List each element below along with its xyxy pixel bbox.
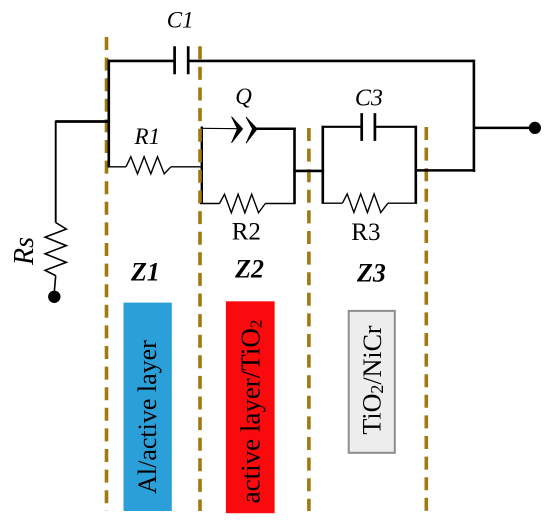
wire Z2 right vertical bbox=[293, 128, 296, 204]
layer box Z2 red bbox=[226, 301, 275, 513]
layer box Z3 gray bbox=[349, 311, 395, 453]
svg-text:Z3: Z3 bbox=[356, 258, 386, 287]
svg-text:TiO2/NiCr: TiO2/NiCr bbox=[357, 325, 387, 435]
wire R3 right bbox=[388, 202, 417, 204]
capacitor C1 bbox=[175, 46, 189, 74]
wire R1 left bbox=[108, 166, 127, 168]
dashed zone separator line 3 bbox=[307, 128, 311, 511]
svg-text:C1: C1 bbox=[167, 8, 194, 33]
svg-text:active layer/TiO2: active layer/TiO2 bbox=[235, 320, 265, 504]
wire Z3 right vertical bbox=[414, 126, 417, 203]
wire R1 right bbox=[171, 166, 201, 168]
resistor R1 bbox=[126, 157, 171, 174]
wire output horizontal bbox=[474, 127, 529, 130]
terminal input dot bbox=[48, 291, 60, 303]
wire R2 right bbox=[265, 203, 295, 205]
svg-text:C3: C3 bbox=[355, 86, 383, 112]
wire Q lead thin bbox=[201, 127, 238, 129]
wire node Z3-output bbox=[415, 169, 476, 172]
wire Q right bbox=[257, 128, 296, 131]
wire input horizontal bbox=[56, 120, 110, 123]
CPE Q chevron 1 bbox=[232, 117, 243, 143]
svg-text:Z2: Z2 bbox=[234, 255, 264, 284]
svg-text:R1: R1 bbox=[134, 124, 161, 149]
wire Rs top bbox=[55, 121, 57, 223]
capacitor C3 bbox=[362, 113, 375, 141]
resistor R3 bbox=[342, 194, 388, 213]
wire left node vertical bbox=[108, 60, 111, 167]
wire Z2 left junction vertical bbox=[201, 127, 203, 204]
wire Z3 top right bbox=[375, 126, 417, 128]
resistor Rs bbox=[45, 223, 66, 276]
dashed zone separator line 1 bbox=[105, 37, 109, 511]
svg-text:Z1: Z1 bbox=[130, 257, 160, 286]
layer box Z1 blue bbox=[124, 303, 172, 511]
svg-text:Al/active layer: Al/active layer bbox=[133, 340, 162, 494]
resistor R2 bbox=[220, 194, 266, 213]
dashed zone separator line 2 bbox=[198, 46, 202, 511]
terminal output dot bbox=[529, 122, 541, 134]
wire Z3 left vertical bbox=[321, 126, 324, 203]
svg-text:R3: R3 bbox=[351, 219, 380, 246]
wire right vertical bbox=[473, 60, 476, 172]
wire Z3 top left bbox=[322, 126, 362, 128]
wire top C1 branch bbox=[108, 60, 474, 63]
CPE Q chevron 2 bbox=[246, 117, 257, 143]
wire Rs bottom bbox=[54, 276, 55, 292]
wire node Z2-Z3 bbox=[293, 170, 324, 173]
svg-text:R2: R2 bbox=[232, 219, 261, 246]
svg-text:Q: Q bbox=[235, 84, 252, 109]
dashed zone separator line 4 bbox=[424, 127, 428, 511]
wire R3 left bbox=[322, 202, 343, 204]
svg-text:Rs: Rs bbox=[9, 237, 40, 266]
wire R2 left bbox=[200, 203, 219, 205]
